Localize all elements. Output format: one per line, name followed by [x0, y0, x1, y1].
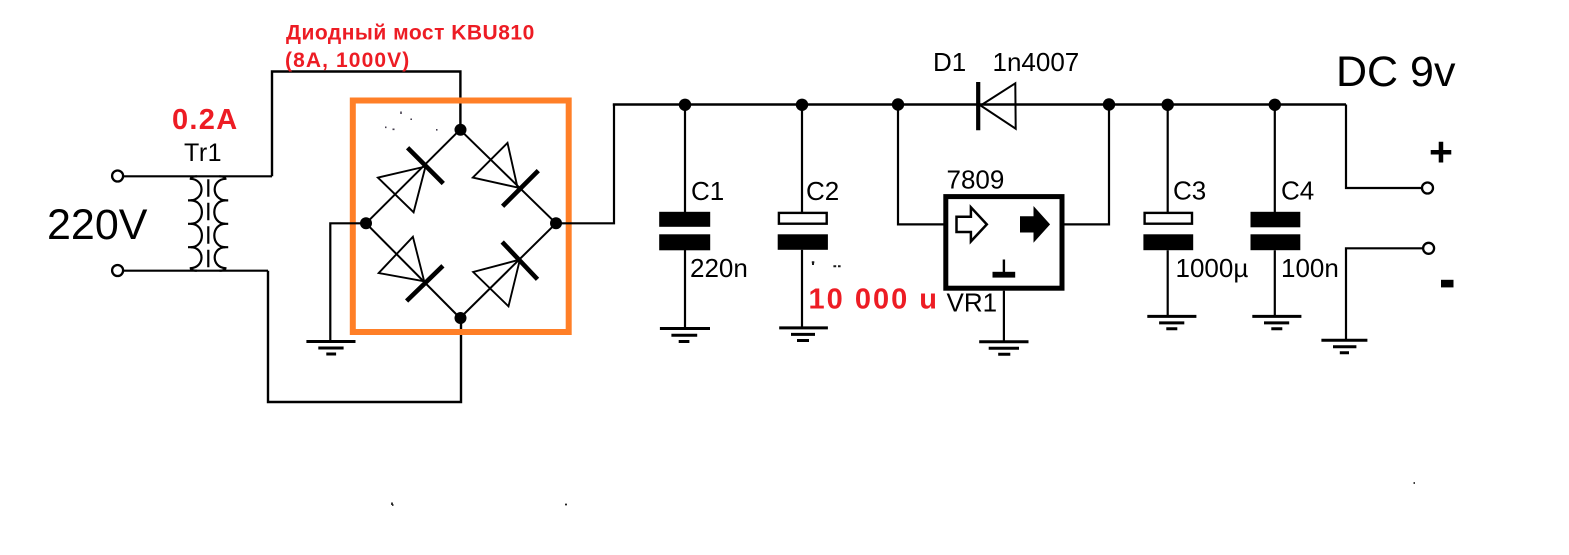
transformer Tr1 core: [207, 179, 209, 268]
svg-text:7809: 7809: [947, 164, 1005, 194]
svg-text:DC 9v: DC 9v: [1336, 48, 1456, 96]
wire input top: [123, 175, 272, 177]
capacitor C1 plate bottom: [659, 234, 710, 250]
label minus: [1441, 280, 1454, 288]
wire secondary bottom to bridge bottom node: [268, 271, 461, 402]
capacitor C2 wire bottom: [801, 250, 803, 328]
svg-text:Tr1: Tr1: [184, 139, 222, 167]
node C1 junction: [679, 99, 691, 111]
capacitor C3 wire top: [1167, 105, 1169, 214]
svg-text:C2: C2: [806, 176, 839, 206]
svg-text:C4: C4: [1281, 176, 1314, 206]
ground (C2): [779, 328, 828, 341]
svg-text:220n: 220n: [690, 253, 748, 283]
capacitor C4 wire bottom: [1274, 250, 1276, 316]
wire regulator output: [1063, 105, 1109, 225]
regulator output arrow (filled): [1021, 207, 1050, 241]
regulator VR1 7809 box: [946, 197, 1062, 289]
node bridge bottom: [455, 312, 467, 324]
transformer Tr1 primary cusp ticks: [188, 200, 193, 247]
wire positive output: [1346, 105, 1422, 189]
diode bridge top-right: triangle: [473, 143, 518, 188]
smudge marks (artifacts): [385, 112, 438, 130]
capacitor C1 wire bottom: [684, 250, 686, 329]
transformer Tr1 secondary cusp ticks: [223, 200, 228, 247]
capacitor C3 plate bottom: [1143, 234, 1193, 250]
ground (C1): [660, 329, 710, 342]
svg-text:(8А, 1000V): (8А, 1000V): [285, 49, 410, 72]
node C3 junction: [1162, 99, 1174, 111]
wire positive rail: [613, 103, 1346, 105]
terminal output plus: [1422, 183, 1433, 194]
svg-text:Диодный мост KBU810: Диодный мост KBU810: [286, 22, 535, 45]
regulator ground pin symbol: [1003, 260, 1005, 273]
wire regulator input: [898, 105, 945, 225]
capacitor C4 plate bottom: [1251, 234, 1301, 250]
capacitor C1 wire top: [684, 105, 686, 213]
wire bridge right node to positive rail: [556, 105, 614, 224]
capacitor C2 plate bottom: [778, 234, 828, 250]
bridge diamond wire left-top: [366, 130, 460, 224]
svg-text:C3: C3: [1173, 176, 1206, 206]
svg-text:D1: D1: [933, 47, 966, 77]
node regulator input junction: [892, 98, 904, 110]
capacitor C2 plate top (polarized outline): [779, 213, 827, 224]
transformer Tr1 secondary winding: [214, 176, 225, 270]
diode bridge bottom-left: cathode bar: [407, 266, 443, 301]
node bridge left: [360, 217, 372, 229]
diode bridge top-right: cathode bar: [503, 171, 539, 207]
ground (C3): [1147, 316, 1196, 328]
terminal output minus: [1423, 243, 1434, 254]
diode D1 cathode bar: [976, 82, 980, 130]
bridge diamond wire top-right: [460, 130, 556, 224]
svg-text:1000µ: 1000µ: [1176, 253, 1249, 283]
wire regulator ground: [1003, 291, 1005, 341]
svg-text:VR1: VR1: [947, 288, 998, 318]
regulator input arrow (outline): [957, 207, 987, 241]
svg-text:1n4007: 1n4007: [993, 47, 1080, 77]
diode D1 triangle: [981, 83, 1016, 128]
node regulator output junction: [1103, 98, 1115, 110]
terminal input bottom: [112, 265, 123, 276]
ground (C4): [1252, 316, 1301, 328]
wire secondary top to bridge top node: [272, 72, 460, 177]
capacitor C4 wire top: [1274, 105, 1276, 213]
capacitor C1 plate top: [659, 212, 710, 227]
ground (bridge): [306, 342, 355, 355]
bridge frame KBU810 (orange box): [353, 101, 569, 333]
bridge diamond wire bottom-right: [460, 223, 556, 318]
bridge diamond wire left-bottom: [366, 223, 460, 318]
svg-text:+: +: [1429, 129, 1453, 175]
node C2 junction: [796, 99, 808, 111]
node bridge top: [455, 124, 467, 136]
terminal input top: [112, 171, 123, 182]
svg-text:10 000 u: 10 000 u: [809, 284, 939, 316]
svg-text:0.2A: 0.2A: [172, 104, 238, 136]
transformer Tr1 primary winding: [191, 176, 202, 270]
capacitor C3 plate top (polarized outline): [1145, 213, 1192, 224]
capacitor C3 wire bottom: [1167, 250, 1169, 316]
wire negative output: [1346, 248, 1423, 340]
ground (output): [1321, 340, 1367, 353]
diode bridge bottom-left: triangle: [379, 237, 425, 281]
node C4 junction: [1269, 99, 1281, 111]
svg-text:220V: 220V: [47, 201, 148, 249]
node bridge right: [550, 217, 562, 229]
wire input bottom: [123, 270, 268, 272]
diode bridge bottom-right: triangle: [473, 260, 520, 307]
wire bridge left node to ground: [330, 223, 366, 341]
diode bridge top-left: cathode bar: [408, 148, 444, 184]
diode bridge bottom-right: cathode bar: [502, 242, 537, 279]
capacitor C4 plate top: [1251, 212, 1301, 228]
capacitor C2 wire top: [801, 105, 803, 214]
ground (VR1): [979, 342, 1028, 355]
svg-text:100n: 100n: [1281, 253, 1339, 283]
svg-text:C1: C1: [691, 176, 724, 206]
diode bridge top-left: triangle: [378, 167, 426, 213]
